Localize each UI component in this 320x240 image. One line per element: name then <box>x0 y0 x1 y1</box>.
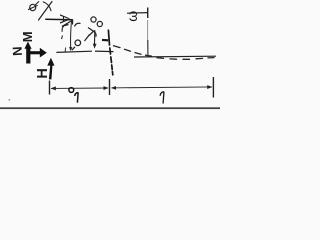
svg-text:A: A <box>57 14 73 24</box>
svg-text:N: N <box>10 46 25 56</box>
svg-text:M: M <box>20 31 35 42</box>
svg-text:ω: ω <box>124 11 140 22</box>
svg-text:H: H <box>35 68 51 78</box>
